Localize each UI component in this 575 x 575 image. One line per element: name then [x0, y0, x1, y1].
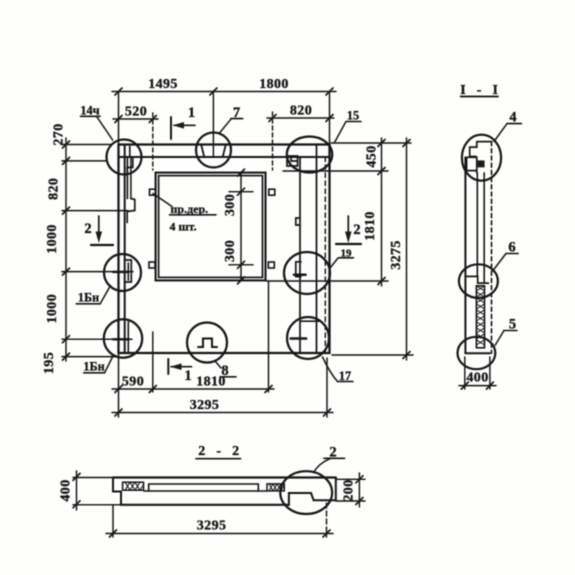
tick [326, 88, 333, 95]
2-2 dim 400 line [76, 471, 78, 510]
2-2 dim 3295 line [106, 533, 333, 535]
tick [63, 207, 70, 214]
tick [73, 501, 80, 508]
callout 8 leader [215, 361, 221, 368]
svg-text:590: 590 [122, 375, 144, 390]
top dim extension middle [212, 91, 214, 157]
callout 15 underline [346, 121, 361, 123]
plug top-left [150, 189, 156, 195]
svg-text:195: 195 [42, 352, 57, 374]
callout 19 leader [330, 258, 338, 268]
detail C2 sleeve marks [201, 145, 225, 157]
2-2 right embed hatched [267, 484, 284, 491]
section mark 2 right arrow [347, 216, 349, 240]
dim 300 vertical line [240, 173, 242, 281]
panel right edge [328, 145, 330, 354]
tick [63, 141, 70, 148]
detail C5 cross tick [294, 273, 306, 276]
svg-text:200: 200 [342, 479, 357, 501]
I-I detail circle 6 [459, 264, 498, 298]
callout 4 leader [494, 124, 507, 142]
2-2 bar left end [113, 478, 121, 505]
right rib notch [296, 218, 300, 225]
tick [149, 116, 156, 123]
panel left rib line b [130, 157, 132, 199]
2-2 left embed hatched [123, 482, 144, 490]
panel outline top edge [119, 143, 330, 145]
callout 1Бн upper leader [100, 286, 110, 304]
tick [149, 386, 156, 393]
callout 19 underline [339, 257, 354, 259]
2-2 web vertical left [148, 484, 150, 491]
detail C3 step mark [287, 156, 298, 166]
top dim extension right [329, 92, 331, 145]
detail C7 hat mark [198, 339, 217, 348]
left dim ext 144 [62, 144, 112, 146]
panel left inner line [124, 145, 126, 354]
2-2 dim 3295 ext left [112, 505, 114, 537]
note underline [170, 214, 217, 216]
note leader [153, 194, 172, 207]
svg-text:400: 400 [59, 479, 74, 501]
svg-text:820: 820 [290, 104, 312, 119]
tick [486, 382, 493, 389]
2-2 dim 200 ext bottom [336, 500, 365, 502]
right ext 281 [266, 280, 388, 282]
svg-text:270: 270 [52, 123, 67, 145]
detail C1 step mark [127, 147, 133, 173]
section mark 1 top arrow [174, 124, 195, 126]
right rib hook (detail C5) [296, 262, 301, 277]
callout 5 underline [504, 330, 517, 332]
callout 1Бн upper underline [76, 303, 100, 305]
left dim ext 357 [62, 356, 119, 358]
callout 2 underline [324, 457, 345, 459]
callout 14ч underline [81, 115, 101, 117]
panel bottom edge [119, 352, 330, 354]
tick [269, 115, 276, 122]
2-2 bar top edge [113, 476, 336, 478]
svg-text:2 - 2: 2 - 2 [198, 444, 243, 459]
left rib embed bump (detail 1Бн) [125, 260, 131, 282]
svg-text:300: 300 [223, 194, 238, 216]
left dim ext 339 [62, 338, 132, 340]
tick [63, 268, 70, 275]
I-I dim 400 ext left [464, 357, 466, 389]
svg-text:1Бн: 1Бн [83, 360, 104, 374]
callout 14ч leader [97, 117, 113, 140]
opening outer rect [156, 173, 266, 281]
opening inner rect [159, 176, 263, 278]
tick [238, 277, 245, 284]
top dimension line 1495-1800 [112, 91, 336, 93]
svg-text:1Бн: 1Бн [78, 291, 99, 305]
plug bottom-left [149, 262, 155, 268]
tick [326, 115, 333, 122]
2-2 bar bottom edge [121, 504, 289, 506]
callout 8 underline [220, 376, 236, 378]
svg-text:1000: 1000 [45, 294, 60, 324]
callout 4 underline [507, 123, 521, 125]
svg-text:3295: 3295 [197, 519, 227, 534]
svg-text:2: 2 [353, 222, 360, 238]
tick [63, 353, 70, 360]
left dim ext 272 [62, 271, 133, 273]
callout 17 leader [323, 357, 338, 382]
right ext 355 [332, 354, 413, 356]
right dim line 3275 [406, 138, 408, 360]
svg-text:2: 2 [84, 221, 91, 237]
I-I dim 400 line [459, 385, 496, 387]
I-I hatch pattern [476, 286, 484, 345]
2-2 dim 400 ext top [73, 477, 113, 479]
svg-text:820: 820 [47, 178, 62, 200]
section I-I title underline [461, 96, 498, 98]
svg-text:15: 15 [347, 109, 359, 123]
panel right middle line [316, 145, 318, 354]
detail circle C5 mid-right [284, 252, 330, 294]
bottom ext left edge [118, 353, 120, 417]
tick [115, 88, 122, 95]
plug top-right [269, 189, 275, 195]
detail circle C7 bottom-middle [187, 323, 227, 363]
tick [238, 169, 245, 176]
dim 820 line [267, 117, 334, 119]
detail circle C1 top-left [107, 140, 142, 175]
left rib embed tick [113, 271, 129, 273]
tick [115, 386, 122, 393]
2-2 web line upper [149, 483, 259, 485]
top dim extension left [118, 92, 120, 145]
svg-text:1810: 1810 [363, 211, 378, 241]
left rib embed inner line [127, 263, 129, 280]
I-I dim 400 ext right [489, 357, 491, 389]
panel left edge [117, 145, 119, 354]
detail C6 cross tick [113, 338, 129, 340]
tick [403, 140, 410, 147]
section mark 2 right bar [336, 243, 361, 245]
left rib notch [127, 199, 135, 212]
section mark 1 bottom vbar [167, 359, 169, 374]
section mark 2 left arrow [98, 216, 100, 240]
2-2 dim 3295 ext right dashed [326, 503, 328, 537]
section mark 1 top vbar [170, 117, 172, 139]
right dim line 450-1810 [381, 138, 383, 286]
tick [378, 168, 385, 175]
dim 300 cross line upper [229, 191, 253, 193]
callout 17 underline [338, 381, 354, 383]
tick [356, 498, 363, 505]
detail C8 joggle [301, 320, 321, 322]
dim 520 line [113, 118, 158, 120]
tick [110, 530, 117, 537]
left rib stub below notch [126, 212, 128, 223]
section mark 2 left bar [91, 244, 113, 246]
tick [403, 352, 410, 359]
svg-text:1495: 1495 [148, 77, 178, 92]
detail circle C2 top-middle [196, 133, 231, 168]
tick [378, 140, 385, 147]
dim 520 ext dashed [152, 113, 154, 170]
2-2 dim 200 line [358, 473, 360, 507]
callout 6 underline [506, 253, 518, 255]
I-I member bottom line [465, 352, 490, 354]
I-I member right dashed line [491, 142, 493, 354]
panel left rib line [126, 157, 128, 199]
svg-text:14ч: 14ч [80, 104, 99, 118]
tick [63, 157, 70, 164]
I-I top detail filled square [478, 160, 485, 167]
svg-text:1000: 1000 [45, 224, 60, 254]
svg-text:1800: 1800 [259, 77, 289, 92]
plug bottom-right [268, 262, 274, 268]
tick [265, 386, 272, 393]
section mark 1 bottom arrow [171, 366, 192, 368]
bottom ext right edge [326, 358, 328, 417]
2-2 detail circle 2 [280, 471, 332, 514]
right ext 171 [283, 170, 388, 172]
callout 7 leader [220, 119, 231, 133]
tick [378, 278, 385, 285]
I-I hatched bar [476, 286, 484, 348]
callout 1Бн lower leader [105, 355, 114, 373]
dim 820 ext dashed [272, 112, 274, 170]
2-2 bar right end notch [289, 478, 336, 505]
detail circle C3 top-right [287, 137, 332, 173]
callout 1Бн lower underline [84, 372, 105, 374]
svg-text:4 шт.: 4 шт. [170, 220, 197, 234]
panel right hidden dashed line [324, 157, 326, 353]
svg-text:450: 450 [365, 145, 380, 167]
tick [238, 188, 245, 195]
I-I middle joggle [465, 276, 488, 283]
tick [238, 261, 245, 268]
svg-text:пр.дер.: пр.дер. [171, 202, 209, 216]
bottom dim line 590-1810 [112, 388, 274, 390]
detail C8 cross tick [291, 337, 307, 340]
right ext 143 [331, 142, 411, 144]
tick [73, 473, 80, 480]
2-2 dim 200 ext top [336, 478, 365, 480]
svg-text:3295: 3295 [190, 398, 220, 413]
detail C6 tick [127, 322, 129, 352]
svg-text:300: 300 [223, 240, 238, 262]
I-I member inner right line [483, 173, 485, 283]
tick [63, 336, 70, 343]
callout 15 leader [335, 122, 347, 143]
2-2 dim 400 ext bottom [73, 504, 121, 506]
bottom dim line 3295 [112, 412, 333, 414]
section 2-2 title underline [196, 458, 241, 460]
panel right rib line [299, 157, 301, 353]
I-I top detail profile [467, 142, 492, 173]
tick [323, 530, 330, 537]
2-2 web vertical right [257, 484, 259, 491]
2-2 web line lower [144, 490, 267, 492]
bottom ext 152 [152, 332, 154, 392]
callout 7 underline [231, 118, 243, 120]
svg-text:1: 1 [188, 105, 195, 121]
detail circle C4 mid-left [104, 254, 141, 291]
left dim ext 211 [62, 210, 128, 212]
I-I detail circle 4 [462, 135, 501, 181]
svg-text:1: 1 [184, 368, 191, 384]
left dimension line [65, 138, 67, 361]
I-I member inner left line [476, 173, 478, 277]
tick [210, 88, 217, 95]
tick [115, 116, 122, 123]
detail circle C6 bottom-left [104, 319, 142, 357]
dim 300 cross line lower [229, 264, 253, 266]
tick [356, 476, 363, 483]
I-I member left outer line [464, 157, 466, 353]
tick [324, 409, 331, 416]
I-I detail circle 5 [458, 337, 496, 369]
tick [461, 382, 468, 389]
svg-text:520: 520 [125, 105, 147, 120]
callout 6 leader [493, 254, 506, 272]
bottom ext 268 [268, 281, 270, 392]
detail circle C8 bottom-right [287, 317, 329, 359]
svg-text:1810: 1810 [196, 375, 226, 390]
callout 2 leader [314, 458, 331, 472]
svg-text:3275: 3275 [389, 240, 404, 270]
tick [115, 409, 122, 416]
callout 5 leader [495, 331, 504, 346]
left dim ext 161 [62, 160, 107, 162]
panel top rib inner line [119, 156, 330, 158]
svg-text:400: 400 [466, 371, 488, 386]
